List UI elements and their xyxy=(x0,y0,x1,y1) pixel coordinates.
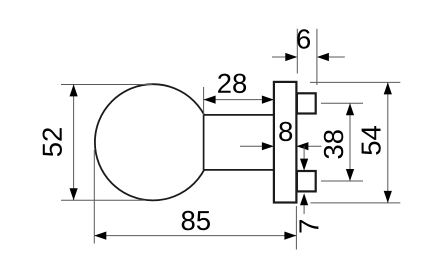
dim 38 arrowheads xyxy=(346,103,354,181)
dim 8 arrowheads xyxy=(262,142,309,150)
dim 54 arrowheads xyxy=(384,82,392,202)
dim 7 arrowheads xyxy=(300,159,308,206)
dim 85 extension lines xyxy=(94,150,296,250)
knob ball xyxy=(95,84,211,200)
dim 52 line xyxy=(73,85,75,201)
dim 6 label xyxy=(297,29,310,48)
dim 52 label xyxy=(43,128,62,156)
top screw boss xyxy=(297,93,316,113)
dim 6 arrowheads xyxy=(285,53,329,61)
dim 7 label xyxy=(299,220,318,233)
dim 38 label xyxy=(324,130,343,158)
dim 52 extension lines xyxy=(61,85,153,201)
knob neck xyxy=(204,115,274,170)
rosette plate xyxy=(274,82,297,203)
dim 54 label xyxy=(362,126,381,155)
dim 85 line xyxy=(94,235,296,237)
dim 28 label xyxy=(218,74,246,93)
dim 6 leader tails xyxy=(272,56,345,58)
dim 28 line xyxy=(204,99,274,101)
dim 7 leader tails xyxy=(303,146,305,214)
dim 6 extension lines xyxy=(297,29,317,85)
dim 28 arrowheads xyxy=(204,96,274,104)
bottom screw boss xyxy=(297,171,316,191)
dim 38 line xyxy=(349,103,351,181)
dim 28 extension line xyxy=(203,87,205,115)
dim 38 extension lines xyxy=(321,103,363,181)
dim 8 leader tails xyxy=(240,145,322,147)
dim 52 arrowheads xyxy=(70,84,78,200)
dim 54 line xyxy=(387,82,389,202)
dim 85 arrowheads xyxy=(94,232,296,240)
dim 8 label xyxy=(279,122,292,141)
dim 54 extension lines xyxy=(310,82,400,202)
dim 85 label xyxy=(182,211,210,230)
